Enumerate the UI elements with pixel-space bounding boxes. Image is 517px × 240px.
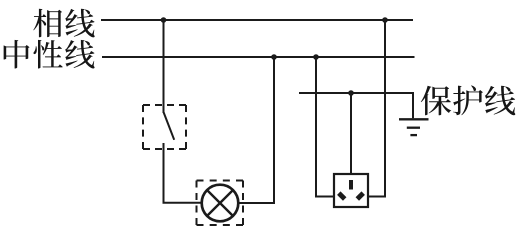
label: protective earth line text 保护线 bbox=[421, 85, 516, 115]
wire: from neutral line down and right to socket left terminal bbox=[316, 57, 334, 197]
node: junction of neutral line and socket left branch bbox=[313, 54, 319, 60]
switch S1 (single-pole switch, open blade) in dashed enclosure bbox=[143, 105, 186, 149]
label: neutral line text 中性线 bbox=[4, 40, 95, 69]
wire: from switch bottom contact down and right to lamp bbox=[164, 143, 203, 203]
wire: protective earth line horizontal run with corner down to ground bbox=[299, 93, 413, 118]
wire: from phase line down to switch top contact bbox=[163, 20, 165, 113]
wire: phase line (top horizontal bus) bbox=[101, 19, 413, 21]
wire: neutral line (second horizontal bus) bbox=[102, 56, 415, 58]
node: junction of phase line and socket right branch bbox=[382, 17, 388, 23]
wire: from protective line down to socket earth terminal bbox=[350, 93, 352, 174]
wire: from phase line down and left to socket right terminal bbox=[368, 20, 385, 197]
label: phase line text 相线 bbox=[33, 9, 94, 38]
lamp EL1 (circle with X cross) in dashed enclosure bbox=[197, 181, 244, 226]
node: junction of protective line and socket earth branch bbox=[348, 90, 354, 96]
ground (earth symbol, three bars) bbox=[399, 119, 429, 135]
node: junction of neutral line and lamp branch bbox=[271, 54, 277, 60]
wire: from lamp right side up to neutral line bbox=[238, 57, 274, 203]
socket X1 (three-pin power outlet, earth pin up) bbox=[334, 174, 368, 207]
node: junction of phase line and switch branch bbox=[161, 17, 167, 23]
